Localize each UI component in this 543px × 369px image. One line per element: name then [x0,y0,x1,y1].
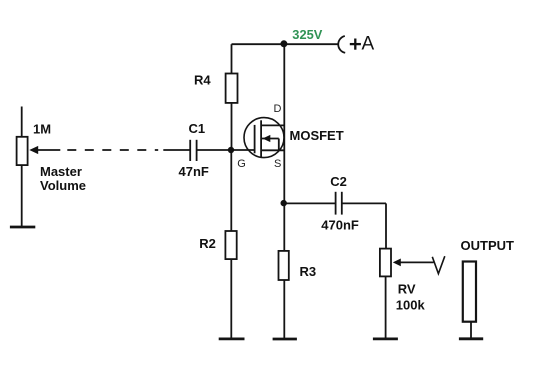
svg-text:47nF: 47nF [179,164,209,179]
svg-text:S: S [274,158,281,170]
svg-text:470nF: 470nF [321,217,359,232]
svg-text:OUTPUT: OUTPUT [461,238,515,253]
svg-text:1M: 1M [33,122,51,137]
svg-text:MOSFET: MOSFET [290,128,344,143]
svg-text:100k: 100k [396,298,426,313]
svg-text:Volume: Volume [40,178,86,193]
svg-text:325V: 325V [292,27,322,42]
svg-text:RV: RV [398,281,416,296]
svg-text:R2: R2 [199,236,216,251]
svg-text:A: A [362,34,375,55]
svg-text:C1: C1 [189,121,206,136]
svg-text:R3: R3 [300,264,317,279]
svg-text:R4: R4 [194,73,211,88]
svg-text:G: G [237,158,246,170]
svg-text:Master: Master [40,164,82,179]
svg-text:D: D [274,103,282,115]
svg-text:C2: C2 [330,174,347,189]
